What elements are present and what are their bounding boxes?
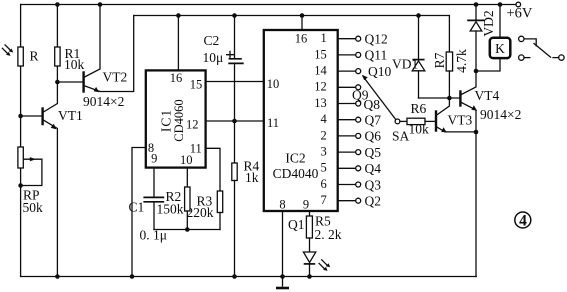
svg-text:12: 12 bbox=[186, 118, 199, 132]
wire IC1 pin12 to IC2 pin11 bbox=[206, 120, 264, 122]
node pin8 wire / bottom rail bbox=[130, 274, 135, 279]
svg-text:R: R bbox=[30, 49, 39, 64]
capacitor C2 bbox=[203, 16, 244, 66]
node rail/IC2 pin16 bbox=[300, 13, 305, 18]
svg-text:Q8: Q8 bbox=[364, 97, 381, 112]
wire IC2 Q11 output pin 15 bbox=[314, 47, 387, 62]
wire IC2 pin8 to ground bbox=[282, 211, 284, 286]
svg-text:Q1: Q1 bbox=[288, 217, 305, 232]
svg-text:VT2: VT2 bbox=[103, 70, 128, 85]
svg-text:VT1: VT1 bbox=[58, 108, 83, 123]
svg-text:13: 13 bbox=[314, 96, 327, 110]
svg-text:10μ: 10μ bbox=[203, 50, 224, 65]
svg-text:VT3: VT3 bbox=[448, 113, 473, 128]
relay K bbox=[476, 5, 510, 72]
node rail/IC1 pin16 bbox=[176, 13, 181, 18]
svg-text:8: 8 bbox=[279, 198, 285, 212]
wire IC1 pin8 to ground rail bbox=[132, 148, 146, 277]
relay contact terminal 3 bbox=[559, 55, 564, 60]
svg-text:16: 16 bbox=[295, 32, 308, 46]
svg-text:9014×2: 9014×2 bbox=[480, 107, 521, 122]
wire VT2 base bbox=[57, 81, 83, 83]
svg-text:VD1: VD1 bbox=[392, 57, 418, 72]
node rail/C2 bbox=[232, 13, 237, 18]
op-amp IC2 CD4040 box bbox=[264, 30, 338, 211]
node C2/R4/reset line junction bbox=[232, 119, 237, 124]
diode VD2 flyback bbox=[467, 5, 496, 72]
svg-text:4: 4 bbox=[321, 112, 328, 126]
transistor VT1 bbox=[43, 82, 83, 277]
transistor VT4 bbox=[460, 71, 521, 277]
svg-text:10k: 10k bbox=[64, 57, 85, 72]
svg-text:1: 1 bbox=[321, 31, 327, 45]
svg-text:C2: C2 bbox=[204, 33, 220, 48]
wire left branch (R / RP column) bbox=[20, 5, 22, 277]
wire oscillator RC junction bbox=[154, 229, 220, 231]
svg-text:Q6: Q6 bbox=[365, 129, 382, 144]
wire IC2 pin9 Q1 output bbox=[309, 211, 311, 216]
+6V supply terminal bbox=[507, 2, 533, 21]
svg-text:15: 15 bbox=[190, 78, 203, 92]
node R1 top rail junction bbox=[55, 2, 60, 7]
svg-text:2: 2 bbox=[321, 128, 327, 142]
svg-text:CD4060: CD4060 bbox=[172, 99, 186, 141]
wire IC2 Q8 output pin 13 bbox=[314, 96, 380, 112]
node R1/VT1 collector/VT2 base junction bbox=[55, 80, 60, 85]
svg-text:Q10: Q10 bbox=[368, 64, 391, 79]
svg-text:3: 3 bbox=[321, 145, 327, 159]
node R2 bottom junction bbox=[185, 227, 190, 232]
wire contact 3 stub bbox=[553, 57, 559, 59]
svg-text:50k: 50k bbox=[23, 200, 44, 215]
svg-text:Q4: Q4 bbox=[365, 161, 382, 176]
resistor R5 bbox=[288, 214, 342, 252]
svg-text:R6: R6 bbox=[411, 101, 427, 116]
svg-text:Q5: Q5 bbox=[365, 145, 382, 160]
resistor R1 bbox=[55, 5, 85, 83]
wire IC1 pin15 to IC2 pin10 bbox=[206, 81, 264, 83]
switch blade relay contact bbox=[534, 44, 551, 58]
wire IC1 pin11 to R3 bbox=[206, 148, 220, 191]
resistor R3 bbox=[187, 191, 223, 230]
wire VT1 base bbox=[21, 115, 42, 117]
svg-text:IC2: IC2 bbox=[285, 151, 305, 166]
node VT1 emitter / bottom rail junction bbox=[55, 274, 60, 279]
svg-text:4: 4 bbox=[519, 213, 527, 230]
wire IC2 Q6 output pin 2 bbox=[321, 128, 382, 143]
node rail/VD1 bbox=[416, 13, 421, 18]
node A junction bbox=[447, 96, 452, 101]
svg-text:Q2: Q2 bbox=[365, 194, 382, 209]
diode VD1 bbox=[392, 16, 425, 99]
node R4 / bottom rail bbox=[232, 274, 237, 279]
wire contact 1 lead bbox=[524, 39, 536, 46]
switch SA selector blade bbox=[362, 75, 410, 144]
svg-text:150k: 150k bbox=[157, 202, 184, 217]
svg-text:1k: 1k bbox=[245, 170, 259, 185]
transistor VT2 bbox=[83, 5, 134, 110]
node D2 top rail junction bbox=[474, 2, 479, 7]
node D2/K/VT4 collector junction bbox=[474, 69, 479, 74]
svg-text:2. 2k: 2. 2k bbox=[315, 227, 342, 242]
wire top +6V rail bbox=[21, 4, 516, 6]
node RP wiper junction bbox=[18, 183, 23, 188]
transistor VT3 bbox=[436, 98, 476, 133]
wire contact 2 stub bbox=[524, 57, 530, 59]
wire IC2 Q3 output pin 6 bbox=[321, 177, 382, 192]
node VT3/VT4 emitter junction bbox=[474, 130, 479, 135]
node LED / bottom rail bbox=[307, 274, 312, 279]
node pin8 / bottom rail bbox=[280, 274, 285, 279]
svg-text:7: 7 bbox=[321, 193, 327, 207]
resistor R2 on IC1 pin10 bbox=[157, 168, 191, 230]
ground bbox=[276, 287, 289, 290]
svg-text:15: 15 bbox=[314, 47, 327, 61]
svg-text:Q7: Q7 bbox=[365, 113, 382, 128]
resistor R6 bbox=[400, 101, 436, 137]
svg-text:6: 6 bbox=[321, 177, 327, 191]
wire node A (R7/VD1/VT3 collector to VT4 base) bbox=[419, 97, 460, 99]
capacitor C1 on IC1 pin9 bbox=[129, 168, 168, 243]
svg-text:CD4040: CD4040 bbox=[273, 166, 319, 181]
svg-text:VT4: VT4 bbox=[475, 88, 500, 103]
svg-text:+6V: +6V bbox=[507, 6, 533, 22]
wire IC2 Q2 output pin 7 bbox=[321, 193, 381, 208]
svg-text:14: 14 bbox=[314, 64, 327, 78]
svg-text:16: 16 bbox=[170, 71, 183, 85]
node VT2 collector top rail junction bbox=[98, 2, 103, 7]
svg-text:9: 9 bbox=[151, 152, 157, 166]
relay contact terminal 1 bbox=[519, 36, 524, 41]
resistor R4 bbox=[232, 159, 260, 277]
wire IC2 Q10 output pin 14 bbox=[314, 64, 391, 80]
svg-text:11: 11 bbox=[267, 116, 279, 130]
svg-text:10: 10 bbox=[180, 153, 193, 167]
svg-text:C1: C1 bbox=[129, 200, 145, 215]
op-amp IC1 CD4060 box bbox=[146, 70, 206, 167]
svg-text:Q3: Q3 bbox=[365, 177, 382, 192]
LED indicator diode bbox=[303, 252, 330, 277]
wire C2 to reset line and R4 bbox=[234, 64, 236, 163]
svg-text:10k: 10k bbox=[409, 122, 430, 137]
circled figure number 4 bbox=[515, 212, 531, 230]
node left line / VT1 base junction bbox=[18, 114, 23, 119]
photoresistor R bbox=[2, 45, 38, 66]
svg-text:9: 9 bbox=[303, 198, 309, 212]
wire IC2 Q9 output pin 12 bbox=[314, 80, 368, 103]
svg-text:4.7k: 4.7k bbox=[454, 49, 469, 73]
svg-text:R7: R7 bbox=[432, 52, 447, 68]
wire IC2 Q4 output pin 5 bbox=[321, 161, 382, 176]
svg-text:12: 12 bbox=[314, 80, 327, 94]
svg-text:10: 10 bbox=[267, 77, 280, 91]
svg-text:VD2: VD2 bbox=[481, 10, 496, 36]
wire IC2 pin 16 bbox=[301, 16, 303, 31]
svg-text:5: 5 bbox=[321, 161, 327, 175]
potentiometer RP bbox=[18, 147, 43, 215]
node K top rail junction bbox=[498, 2, 503, 7]
svg-text:Q12: Q12 bbox=[365, 32, 388, 47]
wire IC2 Q12 output pin 1 bbox=[321, 31, 388, 46]
svg-text:SA: SA bbox=[392, 129, 410, 144]
wire bottom ground rail bbox=[21, 276, 477, 278]
resistor R7 bbox=[432, 16, 469, 99]
wire IC1 pin 16 bbox=[177, 16, 179, 71]
svg-text:9014×2: 9014×2 bbox=[83, 94, 124, 109]
relay contact terminal 2 bbox=[519, 55, 524, 60]
wire second VDD rail bbox=[134, 15, 450, 17]
wire IC2 Q5 output pin 3 bbox=[321, 145, 382, 160]
svg-text:K: K bbox=[495, 41, 505, 56]
svg-text:Q11: Q11 bbox=[365, 48, 388, 63]
wire IC2 Q7 output pin 4 bbox=[321, 112, 382, 127]
